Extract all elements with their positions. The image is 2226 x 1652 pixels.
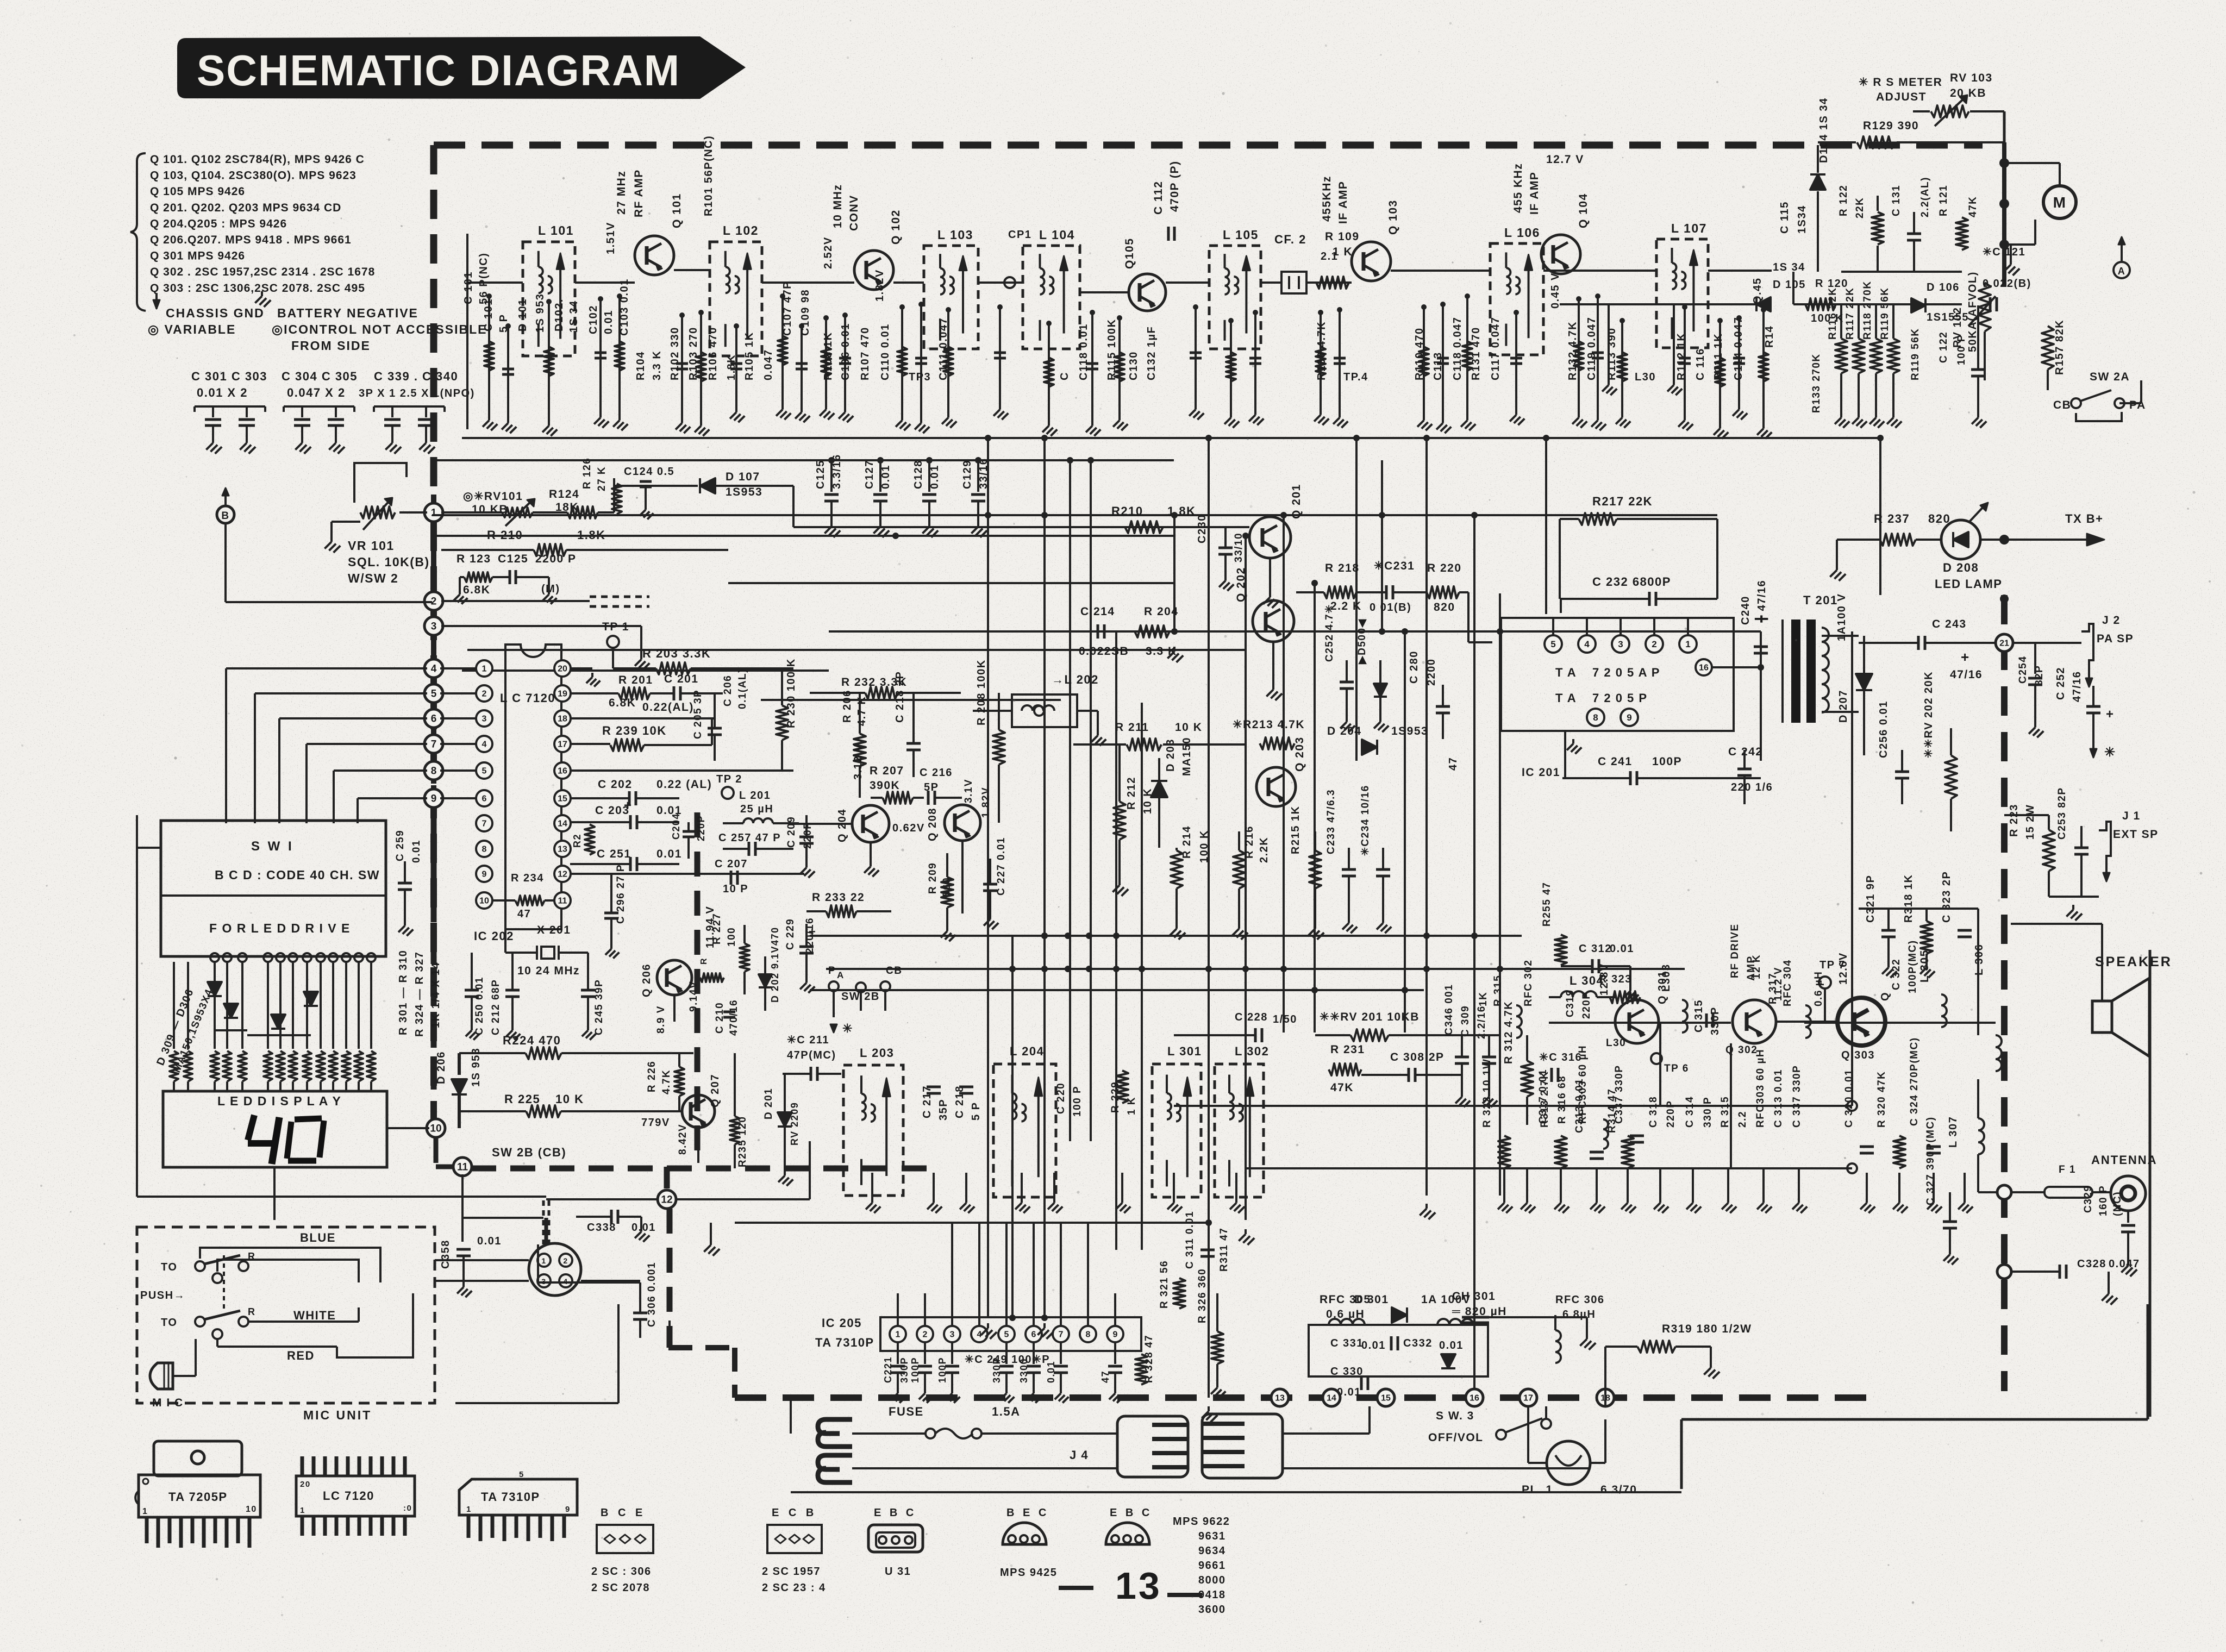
capacitor C212 68P [505, 989, 520, 992]
svg-text:Q 302 . 2SC 1957,2SC 2314 . 2: Q 302 . 2SC 1957,2SC 2314 . 2SC 1678 [150, 266, 375, 278]
svg-text:1.51V: 1.51V [605, 222, 617, 254]
wire drop with ground [548, 302, 550, 421]
svg-text:1: 1 [431, 508, 437, 519]
dashed vertical divider x=1283 [695, 812, 701, 1160]
MIC unit dashed box [137, 1227, 435, 1403]
svg-text:Q 206: Q 206 [641, 963, 653, 997]
transistor Q203 [1256, 767, 1296, 806]
svg-text:2.52V: 2.52V [822, 236, 834, 269]
svg-text:820: 820 [1434, 601, 1455, 614]
svg-text:R110 470: R110 470 [1414, 327, 1425, 380]
microphone symbol [150, 1363, 173, 1389]
svg-text:16: 16 [1699, 664, 1709, 673]
svg-text:15: 15 [1381, 1394, 1391, 1403]
svg-text:R210: R210 [1111, 504, 1143, 518]
svg-text:✳C 249 100✳P: ✳C 249 100✳P [965, 1354, 1050, 1366]
svg-text:9: 9 [431, 793, 437, 805]
svg-text:3.3 K: 3.3 K [1146, 645, 1177, 658]
svg-text:R107 470: R107 470 [859, 327, 871, 380]
svg-text:0.022SB: 0.022SB [1079, 645, 1129, 658]
svg-text:C 323 2P: C 323 2P [1941, 871, 1953, 923]
svg-text:C102: C102 [587, 305, 599, 334]
left bus dashed lower section [431, 811, 437, 1118]
svg-text:R 323: R 323 [1599, 973, 1632, 985]
svg-text:9: 9 [1113, 1330, 1118, 1340]
IC205 bottom caps [897, 1342, 899, 1364]
svg-text:RFC 302: RFC 302 [1523, 959, 1534, 1006]
svg-text:R 301 — R 310: R 301 — R 310 [397, 950, 409, 1035]
resistor R228 R229 beside Q206 [700, 973, 724, 982]
IC201 pin 16 node [1696, 659, 1712, 675]
svg-text:220P: 220P [696, 815, 706, 841]
svg-text:C125: C125 [815, 460, 827, 489]
edge connector node 3 [431, 613, 436, 639]
svg-text:10 K: 10 K [1142, 788, 1154, 814]
svg-text:P: P [828, 965, 836, 977]
svg-text:R 326 360: R 326 360 [1197, 1268, 1208, 1323]
svg-text:C117 0.047: C117 0.047 [1490, 317, 1502, 380]
svg-text:RFC 304: RFC 304 [1782, 959, 1793, 1006]
svg-text:R 315: R 315 [1719, 1096, 1731, 1128]
svg-text:5: 5 [482, 767, 487, 776]
svg-text:R103 270: R103 270 [687, 327, 699, 380]
svg-text:C 115: C 115 [1779, 201, 1791, 234]
svg-text:RFC 306: RFC 306 [1555, 1294, 1605, 1306]
svg-text:C 245 39P: C 245 39P [593, 979, 605, 1035]
svg-text:0.1(AL): 0.1(AL) [737, 668, 748, 709]
resistor R215 2.2K vertical [1233, 850, 1245, 888]
svg-text:11: 11 [457, 1162, 468, 1173]
edge connector node 5 [431, 680, 436, 706]
svg-text:3.3 K: 3.3 K [651, 351, 663, 380]
svg-text:IC 201: IC 201 [1522, 766, 1560, 779]
svg-text:J 1: J 1 [2122, 810, 2141, 822]
svg-text:L 302: L 302 [1235, 1044, 1269, 1058]
coil L106 tuned-transformer dashed box [1490, 243, 1543, 355]
svg-text:5P: 5P [924, 781, 939, 793]
svg-text:PL. 1: PL. 1 [1522, 1484, 1553, 1496]
wire drop with ground [1320, 312, 1322, 410]
svg-text:C346 001: C346 001 [1443, 984, 1455, 1035]
svg-text:✳✳RV 202 20K: ✳✳RV 202 20K [1923, 671, 1935, 758]
svg-text:C 216: C 216 [920, 767, 953, 779]
diode D203 MA150 vertical [1151, 781, 1167, 797]
wires from IC201 up to top section [1560, 599, 1562, 613]
page number 13 [1059, 1586, 1093, 1590]
svg-text:4: 4 [431, 664, 437, 675]
svg-text:8000: 8000 [1198, 1574, 1226, 1586]
svg-text:C 331: C 331 [1330, 1337, 1364, 1349]
svg-text:C125: C125 [498, 553, 528, 565]
svg-text:R 204: R 204 [1144, 605, 1179, 618]
svg-text:FROM SIDE: FROM SIDE [291, 339, 371, 353]
svg-text:D 208: D 208 [1943, 561, 1979, 574]
svg-text:1.82V: 1.82V [874, 269, 886, 302]
svg-text:CHASSIS GND: CHASSIS GND [166, 306, 265, 320]
svg-text:1.82V: 1.82V [980, 787, 992, 818]
svg-text:21: 21 [1999, 639, 2009, 648]
svg-text:C128: C128 [912, 460, 924, 489]
wire stair node 4 [226, 667, 427, 669]
pilot lamp PL1 [1547, 1441, 1590, 1485]
svg-text:9661: 9661 [1198, 1560, 1226, 1572]
LC7120 left pins 1-10 [476, 660, 492, 677]
wire drop with ground [1254, 312, 1256, 410]
svg-text:47: 47 [517, 908, 531, 920]
wire drop with ground [618, 296, 621, 416]
svg-text:Q 101: Q 101 [671, 193, 683, 228]
svg-text:20: 20 [300, 1480, 311, 1489]
svg-text:R105 1K: R105 1K [743, 332, 755, 380]
TR6 test point [1651, 1053, 1662, 1064]
svg-text:✳C 121: ✳C 121 [1983, 246, 2025, 258]
wire stair node 5 [255, 692, 427, 694]
svg-text:D 201: D 201 [763, 1088, 774, 1119]
svg-text:L30: L30 [1635, 371, 1656, 383]
svg-text:R 231: R 231 [1330, 1043, 1365, 1056]
svg-text:C111 0.047: C111 0.047 [937, 317, 949, 380]
svg-text:3: 3 [541, 1277, 546, 1286]
dashed border top edge [434, 142, 1983, 149]
svg-text:F 1: F 1 [2059, 1164, 2076, 1175]
wire stair node 8 [334, 769, 427, 772]
svg-text:1/50: 1/50 [1273, 1013, 1297, 1025]
edge connector node 2 [431, 588, 436, 614]
edge connector node 7 [431, 731, 436, 757]
svg-text:U 31: U 31 [885, 1566, 911, 1578]
svg-text:C 311 0.01: C 311 0.01 [1184, 1211, 1196, 1269]
wire drop with ground [1118, 318, 1121, 416]
capacitor C296 27P on pll [604, 912, 618, 915]
svg-text:C240: C240 [1740, 596, 1752, 625]
svg-text:TA 7310P: TA 7310P [481, 1490, 540, 1504]
svg-text:TX B+: TX B+ [2065, 512, 2103, 525]
diode D202 9.1V [759, 974, 772, 987]
svg-text:3600: 3600 [1198, 1604, 1226, 1616]
svg-text:0.022(B): 0.022(B) [1983, 278, 2031, 290]
wire drop with ground [1597, 296, 1599, 416]
svg-text:6: 6 [431, 714, 437, 725]
svg-text:1S 953: 1S 953 [534, 293, 546, 333]
svg-text:C233 47/6.3: C233 47/6.3 [1325, 789, 1337, 854]
svg-text:MPS 9622: MPS 9622 [1173, 1516, 1230, 1528]
svg-text:779V: 779V [641, 1117, 670, 1129]
svg-text:D 101: D 101 [517, 298, 529, 331]
svg-text:47K: 47K [1967, 196, 1979, 217]
capacitor C358 0.01 [457, 1248, 471, 1251]
svg-text:2.2(AL): 2.2(AL) [1919, 177, 1931, 217]
svg-text:Q 201: Q 201 [1290, 484, 1303, 519]
svg-text:TP 2: TP 2 [716, 773, 742, 785]
ground near pin 20 [570, 667, 592, 669]
coil L101 tuned-transformer dashed box [523, 242, 575, 356]
svg-text:17: 17 [558, 740, 567, 749]
svg-text:TO: TO [161, 1261, 177, 1273]
svg-text:L 106: L 106 [1504, 226, 1540, 240]
svg-text:1S1555: 1S1555 [1927, 311, 1969, 323]
wire drop with ground [1048, 323, 1050, 421]
svg-text:C 101: C 101 [462, 271, 474, 304]
wire drop with ground [1230, 321, 1232, 413]
svg-text:R131 470: R131 470 [1470, 327, 1482, 380]
svg-text:0.01: 0.01 [1610, 943, 1634, 955]
svg-text:L E D D I S P L A Y: L E D D I S P L A Y [217, 1094, 341, 1108]
svg-text:C 280: C 280 [1408, 650, 1420, 684]
wire drop with ground [1762, 310, 1765, 424]
junction dots right bus lower [2000, 595, 2009, 603]
svg-text:330P: 330P [899, 1357, 910, 1383]
svg-text:╋ 47/16: ╋ 47/16 [1754, 580, 1768, 623]
svg-text:C103 0.01: C103 0.01 [618, 278, 630, 336]
svg-text:Q 103: Q 103 [1387, 199, 1399, 235]
svg-text:6.8K: 6.8K [609, 697, 636, 709]
wires right center verticals [1851, 631, 1853, 1106]
svg-text:C254: C254 [2017, 656, 2029, 684]
svg-text:◎✳RV101: ◎✳RV101 [463, 490, 523, 503]
svg-text:RF AMP: RF AMP [633, 169, 645, 217]
svg-text:1K 1/4 X 14: 1K 1/4 X 14 [430, 962, 442, 1028]
svg-text:4: 4 [482, 740, 487, 749]
wire drop with ground [599, 299, 602, 413]
wires below node 11 [461, 1174, 464, 1242]
svg-text:ANTENNA: ANTENNA [2091, 1153, 2158, 1167]
svg-text:▶D500◀: ▶D500◀ [1356, 618, 1368, 665]
svg-text:C 203: C 203 [595, 804, 630, 817]
svg-text:C256 0.01: C256 0.01 [1878, 700, 1890, 758]
svg-text:C 232 6800P: C 232 6800P [1592, 575, 1671, 589]
legend battery negative symbol [261, 291, 263, 296]
svg-text:5: 5 [1550, 639, 1555, 649]
svg-text:◎ICONTROL NOT ACCESSIBLE: ◎ICONTROL NOT ACCESSIBLE [272, 322, 487, 336]
svg-text:C119 0.047: C119 0.047 [1586, 317, 1598, 380]
svg-text:7: 7 [431, 739, 437, 750]
IC205 box and pins [880, 1317, 1141, 1351]
svg-text:27 K: 27 K [596, 466, 608, 491]
dashed border right edge vertical [2001, 595, 2008, 1391]
svg-text:C 304 C 305: C 304 C 305 [282, 370, 358, 383]
bottom-left frame lines [617, 1304, 620, 1403]
IC201 pins 5 4 3 2 1 [1545, 635, 1562, 653]
edge connector node 1 [431, 499, 436, 525]
svg-text:L 102: L 102 [723, 223, 759, 237]
svg-text:Q 203: Q 203 [1293, 736, 1306, 772]
diodes D309-D306 in bank [208, 982, 222, 996]
svg-text:R 201: R 201 [618, 674, 653, 686]
svg-text:IC 205: IC 205 [822, 1316, 862, 1330]
svg-text:C130: C130 [1128, 351, 1140, 380]
svg-text:C 220: C 220 [1055, 1082, 1067, 1114]
svg-text:R 207: R 207 [870, 765, 904, 777]
edge connector node 9 [431, 785, 436, 811]
coil L105 tuned-transformer dashed box [1209, 246, 1261, 349]
svg-text:1: 1 [142, 1507, 148, 1516]
svg-text:C127: C127 [864, 460, 876, 489]
wire drop with ground [488, 296, 490, 416]
wire stair node 6 [279, 717, 427, 719]
svg-text:0.22(AL): 0.22(AL) [642, 701, 694, 714]
svg-text:13: 13 [1275, 1394, 1285, 1403]
svg-text:C 228: C 228 [1235, 1011, 1268, 1023]
svg-text:W/SW 2: W/SW 2 [348, 571, 398, 585]
svg-text:R 203 3.3K: R 203 3.3K [642, 647, 711, 660]
svg-text:3: 3 [431, 621, 437, 633]
IC201 outline box [1501, 618, 1734, 731]
svg-text:0.01: 0.01 [1361, 1340, 1386, 1351]
svg-text:B E C: B E C [1006, 1507, 1049, 1519]
svg-text:5: 5 [519, 1470, 524, 1479]
svg-text:Q 104: Q 104 [1577, 193, 1590, 228]
svg-text:1S953: 1S953 [726, 486, 762, 498]
junction dots on right bus [1999, 158, 2009, 168]
svg-text:✳R213 4.7K: ✳R213 4.7K [1233, 718, 1305, 731]
svg-text:1S34: 1S34 [1796, 205, 1808, 234]
edge connector node 10 [427, 1119, 445, 1137]
svg-text:R 126: R 126 [581, 458, 593, 489]
svg-text:R: R [248, 1306, 256, 1317]
squelch plug dashed marks at node2 [590, 596, 649, 598]
meter M [2043, 186, 2076, 218]
svg-text:R: R [699, 958, 709, 965]
LC7120 right pins 20-11 [554, 660, 571, 677]
svg-text:R 226: R 226 [646, 1061, 658, 1092]
svg-text:5 P: 5 P [498, 314, 510, 333]
svg-text:9631: 9631 [1198, 1530, 1226, 1542]
transistor Q102 10MHz CONV [854, 251, 893, 290]
diode D208 LED LAMP [1941, 520, 1980, 559]
wire drop with ground [700, 312, 702, 421]
svg-text:R215 1K: R215 1K [1290, 806, 1302, 854]
svg-text:Q 301 MPS 9426: Q 301 MPS 9426 [150, 250, 245, 262]
svg-text:C: C [1059, 372, 1071, 380]
capacitor pair C301 group [195, 405, 265, 408]
wire drop with ground [1621, 321, 1623, 413]
svg-text:1S953: 1S953 [1391, 725, 1428, 737]
svg-text:CB: CB [886, 965, 902, 977]
svg-text:R 317: R 317 [1767, 973, 1779, 1004]
transistor Q303 PA [1837, 998, 1885, 1046]
svg-text:1S 34: 1S 34 [568, 300, 580, 333]
LED DISPLAY box [163, 1091, 387, 1167]
svg-text:C110 0.01: C110 0.01 [879, 323, 891, 380]
svg-text:SPEAKER: SPEAKER [2095, 954, 2172, 969]
svg-text:TP 6: TP 6 [1664, 1063, 1689, 1074]
svg-text:C 309: C 309 [1460, 1005, 1471, 1037]
transistor Q206 [657, 960, 692, 995]
svg-text:R217 22K: R217 22K [1592, 495, 1653, 508]
svg-text:C 315: C 315 [1693, 999, 1705, 1032]
svg-text:D104 1S 34: D104 1S 34 [1818, 97, 1830, 163]
svg-text:Q 206.Q207. MPS 9418 . MPS 9: Q 206.Q207. MPS 9418 . MPS 9661 [150, 234, 352, 246]
svg-text:2 SC 1957: 2 SC 1957 [762, 1566, 821, 1578]
svg-text:L303: L303 [1660, 963, 1672, 992]
svg-text:M I C: M I C [152, 1397, 184, 1409]
svg-text:→L 202: →L 202 [1052, 673, 1099, 686]
svg-text:8.9 V: 8.9 V [655, 1005, 667, 1034]
svg-text:10 24 MHz: 10 24 MHz [517, 965, 580, 977]
svg-text:8: 8 [1593, 712, 1598, 723]
wires node2 node3 [441, 600, 590, 602]
wire drop with ground [999, 307, 1001, 405]
svg-text:C230: C230 [1196, 514, 1208, 543]
svg-text:R 220: R 220 [1427, 562, 1462, 574]
svg-text:8: 8 [1086, 1330, 1091, 1340]
dashed border left edge mid [430, 522, 437, 1126]
svg-text:100: 100 [726, 927, 737, 947]
svg-text:D 206: D 206 [435, 1051, 447, 1084]
wire drop with ground [681, 315, 683, 418]
svg-text:A: A [2118, 266, 2126, 277]
ceramic filter CF.2 [1281, 272, 1306, 293]
svg-text:2: 2 [563, 1256, 568, 1265]
transistor Q201 [1249, 517, 1291, 558]
svg-text:C106 0.01: C106 0.01 [840, 323, 852, 380]
dashed border bottom-left corner piece [732, 1348, 737, 1398]
svg-text:R 208 100K: R 208 100K [976, 659, 987, 725]
svg-text:3P X 1 2.5 X 1(NPO): 3P X 1 2.5 X 1(NPO) [359, 387, 475, 399]
capacitor C250 0.01 [465, 989, 479, 992]
svg-text:✳C 316: ✳C 316 [1539, 1052, 1582, 1063]
svg-text:C 207: C 207 [715, 858, 748, 870]
svg-text:27 MHz: 27 MHz [615, 171, 628, 215]
RF row inner dashed box top (C101 area left border) [466, 234, 468, 429]
svg-text:1S 953: 1S 953 [470, 1048, 482, 1087]
capacitor C245 39P [581, 989, 595, 992]
svg-text:R 218: R 218 [1325, 562, 1360, 574]
svg-text:✳C231: ✳C231 [1374, 560, 1415, 572]
svg-text:47/16: 47/16 [2071, 671, 2083, 702]
svg-text:IC 202: IC 202 [474, 929, 514, 943]
svg-text:R 315: R 315 [1492, 975, 1504, 1006]
svg-text:CP1: CP1 [1008, 229, 1031, 241]
svg-text:9418: 9418 [1198, 1589, 1226, 1601]
wire stubs various [432, 786, 467, 787]
svg-text:✳C234 10/16: ✳C234 10/16 [1360, 785, 1371, 856]
wire drop with ground [825, 318, 827, 405]
svg-text:CB: CB [2053, 399, 2071, 411]
svg-text:R102 330: R102 330 [669, 327, 681, 380]
svg-text:C 312: C 312 [1579, 943, 1612, 955]
svg-text:2: 2 [1652, 639, 1656, 649]
svg-text:R157 82K: R157 82K [2054, 320, 2066, 375]
svg-text:2 SC 2078: 2 SC 2078 [591, 1582, 650, 1594]
wire pin18 [570, 717, 715, 719]
diode D201 RV2209 [778, 1112, 792, 1127]
diode D206 1S953 vertical [452, 1079, 467, 1094]
capacitor C227 0.01 [983, 883, 997, 886]
junction dots center band [1009, 966, 1016, 972]
grounds under Q204 Q205 [870, 842, 872, 862]
wire drop with ground [1339, 310, 1341, 413]
svg-text:R 223: R 223 [2008, 804, 2020, 837]
wire stair node 9 [358, 797, 427, 799]
svg-text:0.01: 0.01 [603, 310, 615, 334]
coil L107 tuned-transformer dashed box [1656, 239, 1708, 348]
svg-text:C 218 2P: C 218 2P [894, 671, 906, 723]
svg-text:470P (P): 470P (P) [1168, 161, 1181, 212]
capacitor C306 0.001 [633, 1312, 647, 1315]
speaker wires right [2149, 950, 2152, 1417]
svg-text:100P: 100P [937, 1357, 948, 1383]
svg-text:R133 270K: R133 270K [1811, 353, 1822, 413]
dashed border top-right corner solid drop [2002, 142, 2006, 287]
svg-text:9: 9 [565, 1505, 571, 1514]
svg-text:TA 7205P: TA 7205P [168, 1490, 228, 1504]
coil L104 tuned-transformer dashed box [1023, 246, 1080, 349]
svg-text:330 P: 330 P [1702, 1097, 1714, 1128]
svg-text:R 322 10 1W: R 322 10 1W [1481, 1059, 1493, 1128]
svg-text:C 205 3P: C 205 3P [692, 690, 704, 739]
svg-text:D 107: D 107 [726, 471, 760, 483]
